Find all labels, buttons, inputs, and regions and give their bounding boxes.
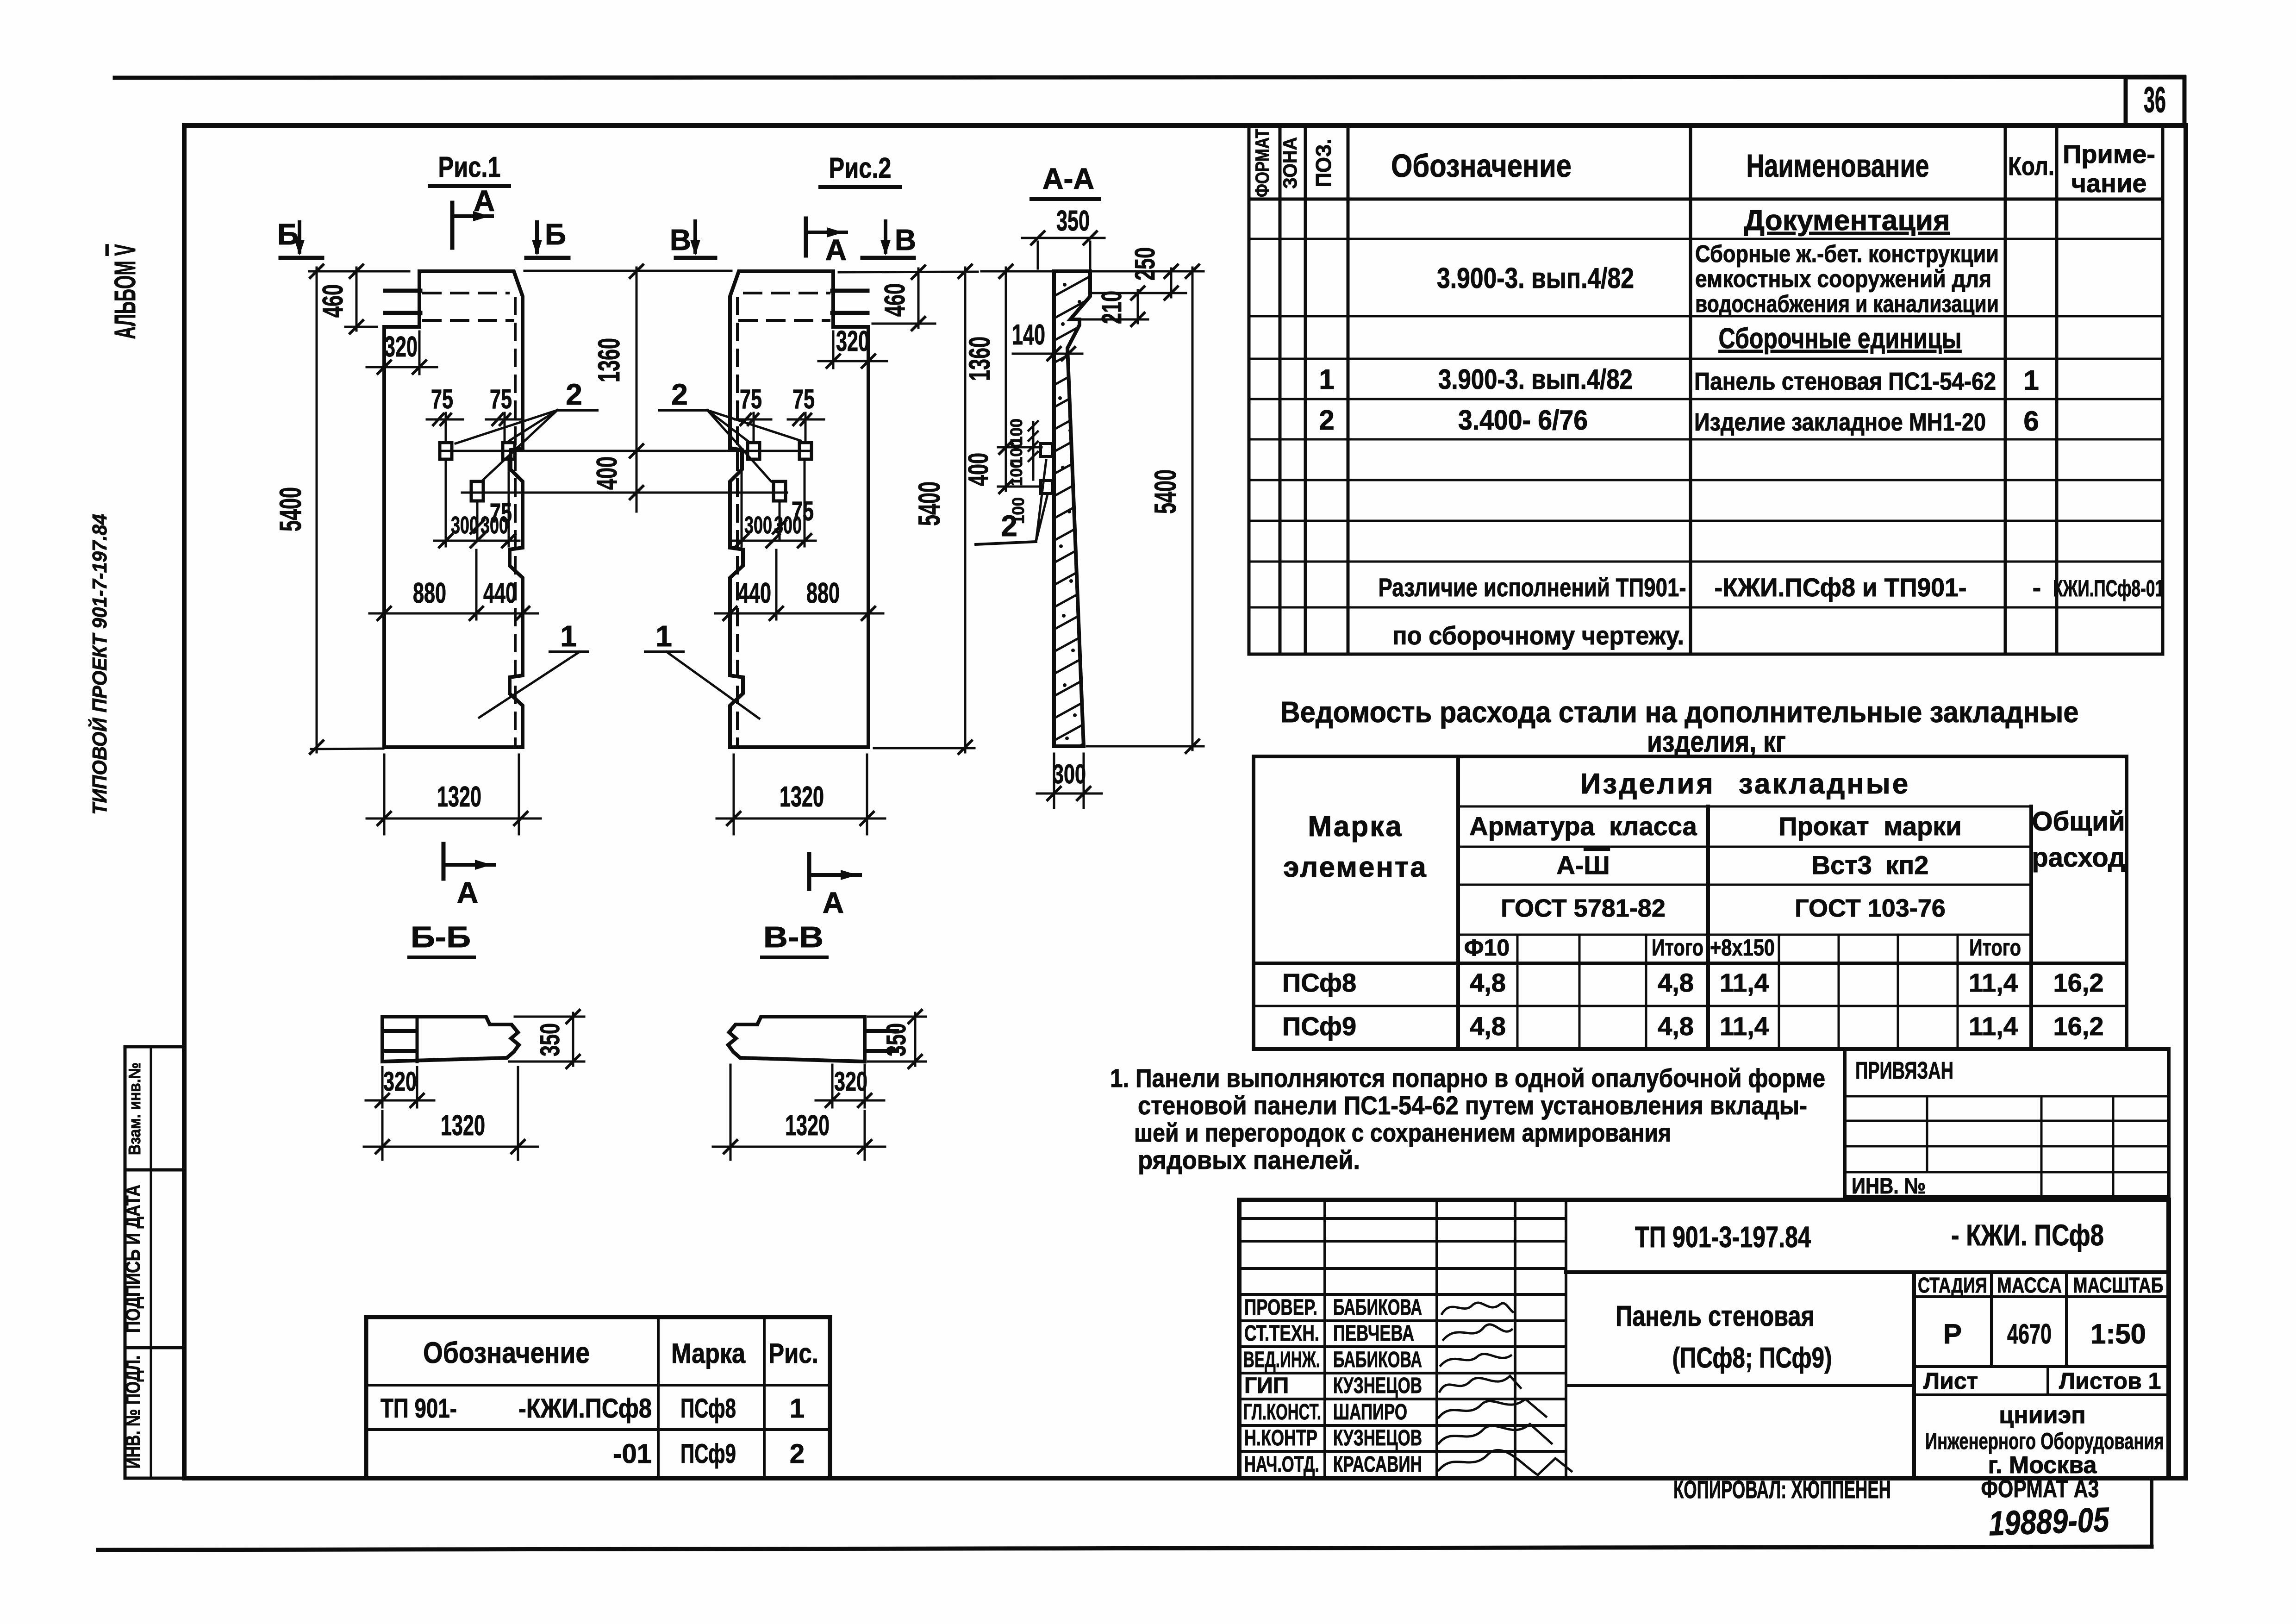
sheet number box: [2126, 77, 2184, 125]
svg-text:ПРОВЕР.: ПРОВЕР.: [1244, 1295, 1317, 1320]
svg-text:Вст3 кп2: Вст3 кп2: [1812, 850, 1929, 880]
svg-text:5400: 5400: [273, 487, 307, 531]
fig2 section mark V top-right: [884, 221, 887, 252]
svg-text:Обозначение: Обозначение: [423, 1336, 590, 1369]
svg-text:1: 1: [2023, 365, 2039, 396]
svg-text:320: 320: [836, 325, 869, 357]
svg-text:А: А: [457, 876, 478, 909]
svg-text:Панель стеновая ПС1-54-62: Панель стеновая ПС1-54-62: [1694, 368, 1996, 395]
fig1 hidden edge dashed: [514, 298, 517, 744]
svg-text:6: 6: [2023, 406, 2039, 437]
svg-text:изделия, кг: изделия, кг: [1647, 725, 1786, 758]
svg-text:300: 300: [774, 512, 802, 539]
svg-text:ФОРМАТ: ФОРМАТ: [1251, 129, 1273, 197]
section A-A hatching: [1037, 265, 1111, 769]
svg-text:4,8: 4,8: [1470, 968, 1506, 997]
svg-text:3.400- 6/76: 3.400- 6/76: [1458, 405, 1588, 436]
section B-B tongue face line: [416, 1017, 419, 1062]
svg-text:16,2: 16,2: [2053, 1012, 2104, 1041]
svg-text:Инженерного Оборудования: Инженерного Оборудования: [1925, 1428, 2164, 1454]
fig2 dim 1320: [733, 755, 735, 834]
svg-text:Ведомость расхода стали на: Ведомость расхода стали на дополнительны…: [1280, 695, 2079, 729]
fig2 dim 440 880: [775, 550, 778, 619]
svg-text:11,4: 11,4: [1969, 968, 2018, 997]
svg-text:Панель стеновая: Панель стеновая: [1616, 1300, 1815, 1332]
svg-text:КЖИ.ПСф8-01: КЖИ.ПСф8-01: [2053, 575, 2164, 601]
fig2 dim 300 300: [741, 461, 743, 546]
svg-text:75: 75: [490, 384, 512, 414]
svg-text:водоснабжения и канализации: водоснабжения и канализации: [1695, 291, 1999, 318]
svg-text:А: А: [825, 233, 847, 267]
fig2 section mark A top: [804, 219, 808, 256]
dim 1360 between figures: [636, 268, 638, 512]
svg-text:МАССА: МАССА: [1997, 1273, 2062, 1297]
svg-text:по сборочному чертежу.: по сборочному чертежу.: [1392, 621, 1684, 650]
fig1 dim 300 300: [445, 461, 447, 546]
svg-text:440: 440: [483, 577, 517, 609]
svg-text:стеновой панели ПС1-54-62 путе: стеновой панели ПС1-54-62 путем установл…: [1138, 1091, 1807, 1120]
svg-text:ГОСТ 5781-82: ГОСТ 5781-82: [1501, 894, 1666, 922]
shared top extension line between figures: [524, 270, 731, 272]
svg-text:5400: 5400: [1148, 469, 1182, 514]
svg-text:ТП 901-: ТП 901-: [381, 1393, 457, 1424]
svg-text:А-Ш: А-Ш: [1556, 850, 1610, 880]
section V-V protruding bars: [865, 1029, 897, 1033]
svg-text:1360: 1360: [963, 337, 996, 381]
left margin stamp box: podpis i data: [125, 1170, 184, 1348]
svg-text:440: 440: [738, 577, 771, 609]
svg-text:75: 75: [740, 384, 762, 414]
svg-text:350: 350: [1056, 205, 1090, 237]
svg-text:Арматура класса: Арматура класса: [1469, 812, 1697, 841]
svg-text:чание: чание: [2071, 169, 2146, 198]
fig1 dim 320: [383, 331, 386, 374]
svg-text:Листов 1: Листов 1: [2059, 1368, 2161, 1394]
fig1 embed plate row1 left: [440, 443, 452, 459]
svg-text:ГИП: ГИП: [1244, 1374, 1289, 1398]
page top trim line: [115, 77, 2184, 78]
svg-text:ТП 901-3-197.84: ТП 901-3-197.84: [1635, 1220, 1811, 1254]
svg-text:КРАСАВИН: КРАСАВИН: [1333, 1452, 1422, 1477]
svg-text:Кол.: Кол.: [2008, 151, 2054, 181]
signature table role labels: [1243, 1295, 1422, 1477]
svg-text:Рис.1: Рис.1: [438, 151, 501, 183]
svg-text:4,8: 4,8: [1470, 1012, 1506, 1041]
svg-text:КУЗНЕЦОВ: КУЗНЕЦОВ: [1333, 1374, 1422, 1398]
dim 400 between figures: [630, 486, 643, 499]
section B-B dim 1320: [381, 1111, 384, 1160]
section A-A embed plates: [1041, 443, 1053, 456]
svg-text:Н.КОНТР: Н.КОНТР: [1244, 1426, 1317, 1450]
svg-text:В: В: [895, 223, 916, 256]
svg-text:ВЕД.ИНЖ.: ВЕД.ИНЖ.: [1243, 1348, 1320, 1372]
svg-text:2: 2: [566, 378, 582, 411]
signature table columns: [1239, 1200, 1566, 1478]
svg-text:400: 400: [591, 456, 623, 490]
fig1 embed plate row1 right: [503, 443, 515, 459]
svg-text:Документация: Документация: [1744, 205, 1950, 237]
svg-text:75: 75: [792, 384, 815, 414]
svg-text:75: 75: [431, 384, 453, 414]
fig1 panel outline: [384, 271, 523, 747]
fig1 section mark A bottom: [442, 844, 446, 879]
title block name cell: [1912, 1272, 1916, 1478]
section A-A dim 210: [1082, 319, 1148, 321]
svg-text:ГОСТ 103-76: ГОСТ 103-76: [1795, 894, 1946, 922]
fig2 section mark A bottom: [807, 854, 811, 889]
svg-text:Рис.2: Рис.2: [829, 152, 892, 184]
svg-text:16,2: 16,2: [2053, 968, 2104, 997]
section V-V outline: [728, 1017, 865, 1062]
svg-text:Марка: Марка: [1308, 811, 1403, 843]
svg-text:-01: -01: [613, 1439, 652, 1469]
section V-V dim 1320: [730, 1065, 732, 1160]
svg-text:300: 300: [1053, 759, 1086, 789]
shared extension line plates row2: [462, 492, 787, 494]
section V-V dim 320: [831, 1065, 834, 1107]
bottom-left table: [366, 1317, 830, 1478]
fig1 hidden bar lines dashed: [424, 292, 508, 294]
svg-text:300: 300: [480, 512, 508, 539]
svg-text:СТ.ТЕХН.: СТ.ТЕХН.: [1244, 1321, 1319, 1346]
svg-text:Изделия закладные: Изделия закладные: [1580, 768, 1910, 800]
drawing frame: [184, 125, 2186, 1478]
fig2 panel outline: [730, 271, 868, 747]
section B-B dim 350: [515, 1016, 584, 1018]
svg-text:ГЛ.КОНСТ.: ГЛ.КОНСТ.: [1243, 1400, 1321, 1424]
svg-text:ШАПИРО: ШАПИРО: [1333, 1400, 1407, 1424]
svg-text:+8х150: +8х150: [1710, 935, 1775, 961]
section A-A concrete dots: [1058, 283, 1081, 740]
section V-V dim 350: [868, 1016, 926, 1018]
svg-text:400: 400: [963, 453, 994, 486]
svg-text:Сборные ж.-бет. конструкции: Сборные ж.-бет. конструкции: [1695, 241, 1999, 268]
svg-text:350: 350: [535, 1023, 565, 1056]
svg-text:Б-Б: Б-Б: [411, 920, 471, 954]
section A-A dim 5400: [1092, 270, 1204, 273]
fig2 dim 460: [839, 272, 978, 272]
svg-text:5400: 5400: [912, 481, 946, 526]
title block stadia massa masshtab: [1914, 1272, 2169, 1395]
fig1 protruding bars: [385, 289, 420, 293]
svg-text:250: 250: [1129, 247, 1160, 281]
fig1 dim 1320: [383, 755, 386, 834]
svg-text:1: 1: [655, 619, 672, 653]
svg-text:Наименование: Наименование: [1747, 148, 1929, 184]
section B-B outline: [382, 1017, 519, 1062]
svg-text:Общий: Общий: [2032, 806, 2125, 837]
section B-B dim 320: [381, 1067, 384, 1107]
left margin stamp box: inv no podl: [125, 1348, 184, 1478]
svg-text:расход: расход: [2032, 843, 2125, 873]
privyazan box: [1845, 1049, 2169, 1197]
steel table grid: [1254, 756, 2127, 1049]
svg-text:300: 300: [451, 512, 479, 539]
svg-text:В-В: В-В: [763, 920, 824, 954]
section A-A dims 100: [1032, 422, 1035, 480]
svg-text:100: 100: [1007, 459, 1026, 486]
svg-text:1: 1: [560, 619, 577, 653]
fig1 dim 460: [345, 326, 377, 328]
svg-text:1320: 1320: [785, 1110, 830, 1142]
svg-text:-: -: [2033, 573, 2041, 602]
svg-text:460: 460: [317, 284, 349, 318]
svg-text:цнииэп: цнииэп: [1999, 1402, 2085, 1429]
svg-text:ИНВ. № ПОДЛ.: ИНВ. № ПОДЛ.: [122, 1355, 144, 1469]
svg-text:БАБИКОВА: БАБИКОВА: [1333, 1348, 1422, 1372]
svg-text:Ф10: Ф10: [1464, 935, 1510, 961]
svg-text:НАЧ.ОТД.: НАЧ.ОТД.: [1244, 1452, 1319, 1477]
svg-text:1. Панели выполняются попарно: 1. Панели выполняются попарно в одной оп…: [1110, 1063, 1825, 1093]
svg-text:-КЖИ.ПСф8 и ТП901-: -КЖИ.ПСф8 и ТП901-: [1715, 573, 1967, 602]
svg-text:1360: 1360: [592, 338, 626, 382]
svg-text:3.900-3. вып.4/82: 3.900-3. вып.4/82: [1437, 262, 1634, 294]
svg-text:Б: Б: [545, 218, 566, 251]
svg-text:19889-05: 19889-05: [1988, 1500, 2110, 1543]
svg-text:шей и перегородок с сохранение: шей и перегородок с сохранением армирова…: [1134, 1118, 1671, 1147]
svg-text:320: 320: [384, 331, 418, 363]
svg-text:1: 1: [1319, 364, 1334, 395]
fig1 dim 880 440: [475, 550, 478, 619]
svg-text:Итого: Итого: [1652, 935, 1703, 961]
fig2 hidden bar lines dashed: [744, 292, 829, 294]
svg-text:880: 880: [806, 577, 840, 609]
section B-B bar lines: [382, 1029, 416, 1033]
svg-text:2: 2: [671, 378, 688, 411]
section A-A dim 300: [1053, 754, 1055, 808]
svg-text:КУЗНЕЦОВ: КУЗНЕЦОВ: [1333, 1426, 1422, 1450]
fig1 section mark A top: [450, 203, 455, 248]
svg-text:Различие исполнений ТП901-: Различие исполнений ТП901-: [1379, 573, 1686, 602]
svg-text:ПОЗ.: ПОЗ.: [1311, 139, 1335, 187]
fig2 hidden edge dashed: [736, 298, 739, 744]
svg-text:1320: 1320: [780, 781, 824, 813]
fig1 embed plate row2: [471, 481, 483, 501]
fig2 dim 320: [832, 331, 835, 368]
svg-text:300: 300: [744, 512, 772, 539]
svg-text:А: А: [823, 886, 844, 919]
svg-text:ПОДПИСЬ И ДАТА: ПОДПИСЬ И ДАТА: [122, 1185, 144, 1333]
svg-text:460: 460: [879, 283, 911, 317]
svg-text:ПСф9: ПСф9: [1282, 1012, 1356, 1041]
svg-text:рядовых панелей.: рядовых панелей.: [1138, 1145, 1360, 1174]
svg-text:ПЕВЧЕВА: ПЕВЧЕВА: [1333, 1321, 1414, 1346]
svg-text:ПСф9: ПСф9: [680, 1439, 736, 1469]
section A-A dim 1360: [981, 270, 1053, 273]
svg-text:-КЖИ.ПСф8: -КЖИ.ПСф8: [518, 1393, 652, 1424]
svg-text:Р: Р: [1943, 1318, 1962, 1349]
fig2 dim 5400: [874, 747, 974, 750]
shared extension line plates row1: [440, 450, 809, 452]
svg-text:4,8: 4,8: [1658, 968, 1694, 997]
svg-text:ИНВ. №: ИНВ. №: [1852, 1174, 1926, 1199]
svg-text:Обозначение: Обозначение: [1391, 148, 1572, 184]
svg-text:Лист: Лист: [1923, 1368, 1978, 1394]
svg-text:1:50: 1:50: [2090, 1318, 2146, 1349]
svg-text:Изделие закладное МН1-20: Изделие закладное МН1-20: [1694, 408, 1986, 436]
svg-text:ПСф8: ПСф8: [1282, 968, 1356, 997]
svg-text:3.900-3. вып.4/82: 3.900-3. вып.4/82: [1438, 364, 1633, 395]
fig2 embed plate row1 left: [748, 443, 760, 459]
svg-text:1: 1: [790, 1393, 805, 1424]
svg-text:Прокат марки: Прокат марки: [1778, 812, 1961, 841]
svg-text:Сборочные единицы: Сборочные единицы: [1719, 323, 1962, 355]
svg-text:880: 880: [413, 577, 446, 609]
section A-A dim 400: [998, 486, 1042, 488]
fig2 protruding bars: [832, 289, 867, 293]
svg-text:2: 2: [1319, 405, 1334, 436]
svg-text:ПСф8: ПСф8: [680, 1393, 736, 1424]
svg-text:36: 36: [2144, 79, 2166, 120]
svg-text:320: 320: [834, 1067, 867, 1097]
fig1 dim 75 lower plate: [476, 502, 479, 541]
title block doc number row: [1566, 1270, 2169, 1274]
svg-text:4,8: 4,8: [1658, 1012, 1694, 1041]
page bottom trim line: [98, 1547, 2152, 1550]
svg-text:Взам. инв.№: Взам. инв.№: [125, 1062, 144, 1155]
svg-text:АЛЬБОМ V: АЛЬБОМ V: [108, 244, 142, 339]
svg-text:Итого: Итого: [1969, 935, 2021, 961]
svg-text:КОПИРОВАЛ: ХЮППЕНЕН: КОПИРОВАЛ: ХЮППЕНЕН: [1673, 1476, 1891, 1504]
fig2 embed plate row1 right: [799, 443, 811, 459]
svg-text:Марка: Марка: [671, 1338, 746, 1369]
svg-text:емкостных сооружений для: емкостных сооружений для: [1695, 266, 1991, 293]
svg-text:Приме-: Приме-: [2063, 139, 2155, 169]
svg-text:СТАДИЯ: СТАДИЯ: [1918, 1273, 1987, 1297]
svg-text:11,4: 11,4: [1720, 968, 1769, 997]
spec table grid: [1249, 125, 2163, 654]
svg-text:4670: 4670: [2007, 1318, 2052, 1349]
section A-A outline: [1054, 271, 1090, 746]
svg-text:БАБИКОВА: БАБИКОВА: [1333, 1295, 1422, 1320]
svg-text:(ПСф8; ПСф9): (ПСф8; ПСф9): [1672, 1342, 1832, 1374]
fig1 dim 5400: [309, 270, 409, 273]
signatures (handwritten): [1439, 1303, 1572, 1475]
left margin stamp box: vzam inv: [125, 1047, 184, 1170]
svg-text:Б: Б: [277, 218, 299, 251]
svg-text:элемента: элемента: [1283, 851, 1428, 883]
svg-text:ПРИВЯЗАН: ПРИВЯЗАН: [1855, 1057, 1953, 1084]
svg-text:- КЖИ. ПСф8: - КЖИ. ПСф8: [1951, 1218, 2104, 1252]
fig2 dim 75 lower plate: [779, 502, 781, 541]
svg-text:320: 320: [383, 1067, 417, 1097]
fig2 embed plate row2: [774, 481, 786, 501]
svg-text:ТИПОВОЙ ПРОЕКТ 901-7-197.84: ТИПОВОЙ ПРОЕКТ 901-7-197.84: [87, 514, 111, 815]
svg-text:Рис.: Рис.: [768, 1338, 818, 1369]
svg-text:350: 350: [881, 1023, 911, 1056]
svg-text:11,4: 11,4: [1720, 1012, 1769, 1041]
svg-text:А-А: А-А: [1042, 162, 1094, 195]
svg-text:140: 140: [1012, 319, 1045, 351]
svg-text:ФОРМАТ А3: ФОРМАТ А3: [1981, 1475, 2099, 1503]
svg-text:2: 2: [1001, 509, 1017, 543]
svg-text:2: 2: [790, 1439, 805, 1469]
svg-text:ЗОНА: ЗОНА: [1279, 137, 1301, 189]
section A-A dim 250: [1092, 292, 1186, 294]
svg-text:А: А: [474, 184, 495, 218]
svg-text:210: 210: [1096, 291, 1127, 324]
fig1 section mark B top-right: [535, 222, 539, 252]
svg-text:1320: 1320: [437, 781, 481, 813]
svg-text:В: В: [670, 223, 691, 256]
svg-text:МАСШТАБ: МАСШТАБ: [2073, 1273, 2164, 1297]
title block outer: [1239, 1200, 2169, 1478]
svg-text:11,4: 11,4: [1969, 1012, 2018, 1041]
svg-text:1320: 1320: [441, 1110, 485, 1142]
